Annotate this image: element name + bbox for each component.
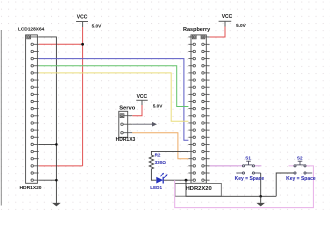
wire magenta Raspberry row18 right to S1 [210,165,237,167]
junction GND at LCD pin21 [55,179,58,182]
svg-text:R2: R2 [155,152,161,157]
switch S2 row B contacts [294,172,312,174]
resistor R2 zigzag [149,154,153,171]
wire LED cathode to Raspberry row20 left [164,179,189,181]
wire pink LED junction to bottom rail to S2 right [175,166,314,208]
connector HDR2X20 pin 1 and 2 squares [188,35,209,39]
LED LED1 emission arrows [161,173,168,178]
svg-text:5.0V: 5.0V [92,23,103,28]
svg-text:Raspberry: Raspberry [183,27,211,33]
switch S1 row A leads [237,165,242,167]
label HDR2X20 box [175,183,221,196]
wire VCC net red: LCD pin2 to VCC rail and down to LCD pin19 [39,27,83,166]
junction GND at LCD pin15 [55,143,58,146]
junction LED wire gray drop [185,179,188,182]
LED LED1 cathode bar [162,177,164,184]
switch S2 row A contacts [294,161,306,167]
svg-text:HDR1X3: HDR1X3 [116,137,136,143]
svg-text:VCC: VCC [222,14,233,20]
switch S1 row B contacts [236,172,260,174]
LED LED1 triangle [156,177,163,184]
svg-text:HDR1X20: HDR1X20 [20,185,42,191]
junction VCC red at LCD pin2 [81,43,84,46]
svg-text:5.0V: 5.0V [236,23,247,28]
svg-text:S2: S2 [297,156,303,161]
switch S2 row A leads [289,165,294,167]
switch S1 row A contacts [242,161,254,167]
wire ground rail up to S2 row B left [276,173,294,196]
wire red Raspberry pin2 to VCC right [210,27,225,37]
wire blue LCD pin4 to Raspberry [39,59,189,141]
connector HDR1X20 (LCD) body [26,35,38,183]
connector HDR1X20 pin 1 square [27,35,39,39]
wire R2 bottom to LED anode [151,171,156,181]
wire orange servo pin3 to Raspberry [132,133,188,159]
svg-text:S1: S1 [245,156,251,161]
sheet border left edge [0,30,2,206]
svg-text:LCD128X64: LCD128X64 [18,27,45,33]
svg-text:5.0V: 5.0V [153,104,164,109]
wire red servo pin1 to VCC [132,105,142,116]
svg-text:330Ω: 330Ω [155,160,167,165]
svg-text:VCC: VCC [77,14,88,20]
connector HDR2X20 (Raspberry) body [191,35,206,183]
connector HDR1X3 (Servo) body [119,111,128,137]
svg-text:LED1: LED1 [150,185,162,190]
connector HDR2X20 circle pins left and right columns [188,43,209,181]
svg-text:HDR2X20: HDR2X20 [186,186,212,192]
wire GND gray: LCD pin1 down to ground [39,37,57,203]
ground symbol right [256,196,265,206]
connector HDR1X20 pins 2-21 circles and stubs [31,43,39,181]
svg-text:VCC: VCC [137,94,148,100]
switch S1 [235,156,265,183]
arrow head servo signal [152,122,157,127]
wire servo pin2 signal with arrow [132,123,152,125]
svg-text:Key = Space: Key = Space [235,176,265,182]
wire green LCD pin5 to Raspberry [39,66,189,107]
wire yellow LCD pin6 to Raspberry [39,73,189,121]
switch S2 [286,156,316,183]
power symbol VCC left [76,22,88,28]
wire gray R2 to Raspberry row16 [151,151,188,153]
ground symbol left [52,203,61,207]
svg-text:Key = Space: Key = Space [286,176,316,182]
wire S1 row B right down to ground [260,173,262,196]
power symbol VCC right [219,21,232,26]
power symbol VCC servo [136,100,147,105]
wire gray drop to ground rail [186,180,276,196]
connector HDR1X3 pins 2,3 [121,123,133,134]
connector HDR1X3 pin 1 square [120,114,132,118]
junction ground rail at S1 [259,195,262,198]
svg-text:Servo: Servo [119,105,136,111]
